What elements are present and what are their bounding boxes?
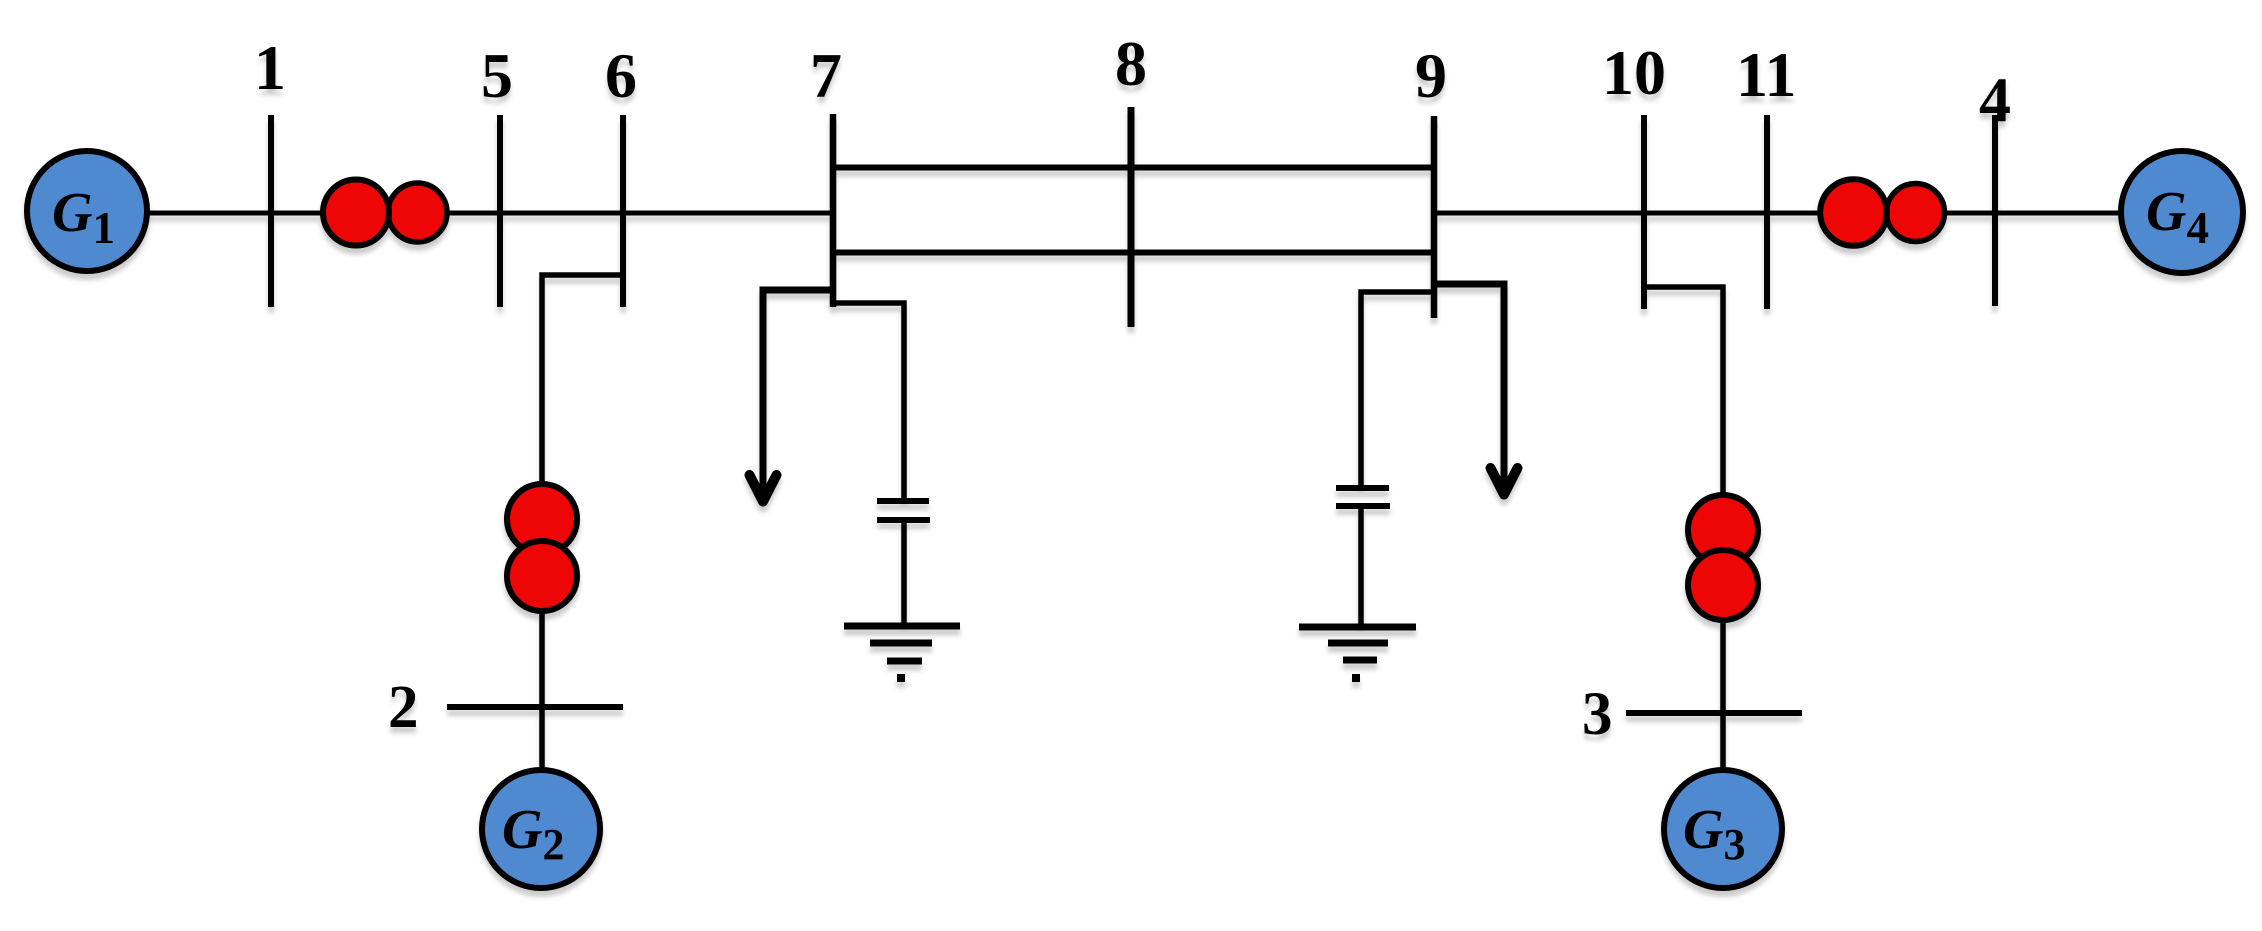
- svg-text:11: 11: [1736, 39, 1796, 110]
- transmission line bottom (bus 7 - bus 9): [833, 250, 1434, 256]
- generator G4: [2121, 151, 2243, 273]
- bus 2: [447, 704, 623, 710]
- capacitor plate top at bus 9: [1336, 485, 1389, 491]
- svg-text:9: 9: [1415, 40, 1447, 111]
- load wire at bus 9: [1434, 284, 1504, 487]
- wire bus 6 to transformer T2: [542, 275, 623, 484]
- wire G1 to bus 7: [148, 211, 833, 216]
- bus 9: [1431, 116, 1438, 318]
- ground at bus 7: [844, 626, 960, 682]
- generator G1: [27, 151, 147, 271]
- ground at bus 9: [1299, 627, 1416, 682]
- bus 10: [1641, 115, 1647, 309]
- transformer T3 top circle: [1688, 495, 1758, 565]
- bus 4: [1992, 115, 1998, 306]
- generator G2: [482, 770, 600, 888]
- transformer T2 top circle: [507, 484, 577, 554]
- transformer T2 bottom circle: [507, 541, 577, 611]
- load wire at bus 7: [763, 290, 833, 494]
- svg-text:3: 3: [1582, 681, 1613, 748]
- capacitor plate bottom at bus 7: [877, 517, 930, 523]
- transformer T1 right circle: [388, 183, 447, 242]
- bus 1: [268, 115, 274, 307]
- transformer T3 bottom circle: [1688, 550, 1758, 620]
- capacitor to ground wire at bus 9: [1358, 509, 1364, 624]
- transmission line top (bus 7 - bus 9): [833, 165, 1434, 171]
- bus 6: [620, 115, 626, 307]
- svg-text:7: 7: [810, 40, 842, 111]
- load arrow at bus 9: [1491, 468, 1518, 495]
- wire bus 9 to G4: [1434, 211, 2120, 216]
- bus 5: [497, 115, 503, 307]
- svg-text:2: 2: [388, 674, 419, 741]
- transformer T4 right circle: [1887, 184, 1945, 242]
- capacitor to ground wire at bus 7: [901, 523, 907, 624]
- capacitor plate top at bus 7: [877, 498, 929, 504]
- svg-text:4: 4: [1979, 64, 2011, 135]
- wire transformer T2 to G2: [539, 611, 545, 770]
- svg-text:8: 8: [1115, 28, 1147, 99]
- bus 7: [830, 114, 837, 307]
- shunt capacitor wire at bus 7: [833, 303, 904, 498]
- bus 11: [1764, 115, 1770, 309]
- wire transformer T3 to G3: [1720, 620, 1726, 770]
- shunt capacitor wire at bus 9: [1361, 292, 1434, 485]
- svg-text:1: 1: [254, 32, 286, 103]
- load arrow at bus 7: [750, 475, 777, 502]
- wire bus 10 to transformer T3: [1644, 287, 1723, 495]
- svg-text:6: 6: [605, 40, 637, 111]
- transformer T4 left circle: [1820, 179, 1887, 246]
- generator G3: [1664, 770, 1782, 888]
- bus 3: [1626, 710, 1802, 716]
- svg-text:5: 5: [481, 40, 513, 111]
- bus 8: [1128, 107, 1135, 327]
- transformer T1 left circle: [323, 180, 389, 246]
- svg-text:10: 10: [1602, 37, 1666, 108]
- capacitor plate bottom at bus 9: [1336, 503, 1390, 509]
